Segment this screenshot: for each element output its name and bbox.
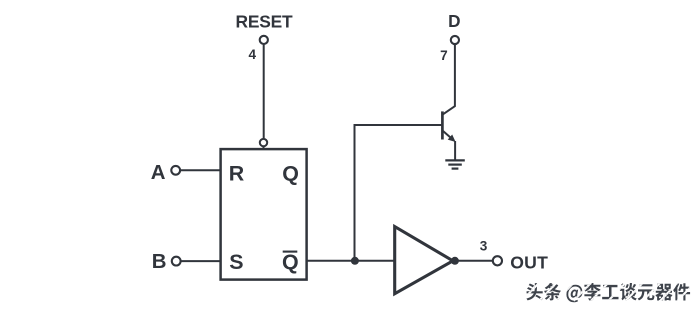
terminal B [172, 257, 181, 266]
overbar of Q-bar [283, 251, 298, 253]
terminal RESET (pin 4) [260, 36, 268, 44]
svg-text:D: D [448, 11, 460, 31]
svg-text:S: S [229, 250, 243, 274]
node reset input bubble on flip-flop [260, 139, 267, 146]
watermark 头条@李工谈元器件 [522, 281, 697, 304]
wire collector to D terminal [454, 45, 456, 107]
wire RESET to flip-flop [263, 45, 265, 139]
svg-text:RESET: RESET [236, 12, 294, 32]
flip-flop box U1 [221, 149, 307, 280]
svg-text:4: 4 [249, 47, 257, 62]
wire Q-bar output to buffer [307, 260, 394, 262]
svg-text:Q: Q [282, 250, 299, 274]
junction node buffer output [451, 257, 459, 265]
ground symbol [445, 160, 465, 168]
wire stub bubble to box [263, 147, 265, 150]
junction node Q-bar/base [351, 257, 359, 265]
wire emitter to ground [454, 141, 456, 160]
svg-text:B: B [152, 251, 167, 273]
wire junction up and to transistor base [355, 125, 442, 261]
transistor Q1 collector diagonal [443, 106, 456, 115]
terminal OUT (pin 3) [493, 256, 502, 265]
svg-text:OUT: OUT [510, 252, 548, 272]
svg-text:R: R [229, 161, 245, 185]
wire A to R input [181, 169, 220, 171]
svg-text:3: 3 [480, 238, 488, 253]
svg-text:A: A [151, 162, 166, 184]
svg-text:7: 7 [440, 48, 448, 63]
wire buffer to OUT terminal [455, 260, 493, 262]
svg-text:Q: Q [282, 161, 299, 185]
wire B to S input [181, 260, 220, 262]
buffer U2 (output driver triangle) [395, 227, 453, 294]
transistor Q1 emitter arrowhead [448, 135, 456, 143]
transistor Q1 base bar [441, 111, 444, 139]
terminal D (pin 7) [451, 36, 459, 44]
transistor Q1 emitter diagonal [443, 131, 454, 141]
terminal A [171, 166, 180, 175]
